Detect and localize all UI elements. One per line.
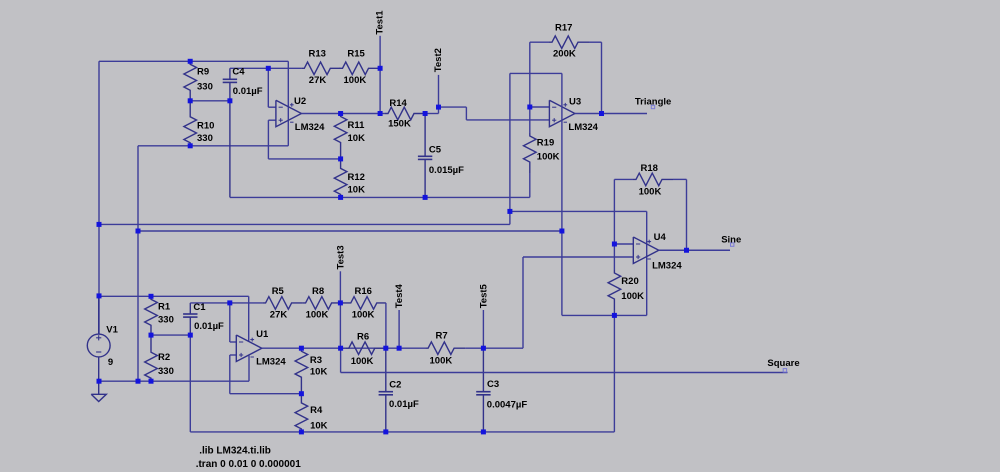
wire U4 power column xyxy=(646,211,648,315)
wire C4 top to U2 minus node xyxy=(230,67,268,69)
net Test4 column xyxy=(398,310,400,348)
svg-text:10K: 10K xyxy=(348,133,366,144)
wire C1 column to bottom bus xyxy=(189,335,191,432)
svg-text:R9: R9 xyxy=(197,67,209,78)
svg-text:R5: R5 xyxy=(272,286,285,297)
resistor R8 xyxy=(303,297,341,310)
wire U1 plus column xyxy=(230,354,237,356)
net Test3 column xyxy=(339,271,341,303)
svg-text:330: 330 xyxy=(197,82,213,93)
wire U4 plus input path xyxy=(523,256,633,258)
svg-text:100K: 100K xyxy=(344,75,367,86)
svg-text:0.01µF: 0.01µF xyxy=(233,86,263,97)
wire Test5 node feedback to U4 xyxy=(483,347,523,349)
wire Test2 node to U3 plus xyxy=(425,113,438,115)
svg-text:Test4: Test4 xyxy=(394,283,405,308)
resistor R4 xyxy=(295,394,308,432)
capacitor C5 xyxy=(424,114,426,157)
svg-text:Triangle: Triangle xyxy=(635,97,671,108)
wire U2 output row xyxy=(301,113,380,115)
wire R17 left column xyxy=(529,42,531,107)
svg-text:10K: 10K xyxy=(310,421,328,432)
svg-text:R15: R15 xyxy=(347,49,365,60)
wire V+ to U3 power xyxy=(510,72,562,74)
wire R1-R2 mid to C1 xyxy=(151,334,190,336)
capacitor C2 xyxy=(385,348,387,392)
svg-text:C1: C1 xyxy=(193,302,206,313)
svg-text:Test3: Test3 xyxy=(335,245,346,269)
svg-text:R3: R3 xyxy=(310,355,322,366)
bus middle node C4-R12-C5-R19 xyxy=(230,196,530,198)
svg-text:Test2: Test2 xyxy=(433,48,444,72)
wire ground column to bottom bus xyxy=(613,315,615,432)
svg-text:330: 330 xyxy=(158,315,174,326)
svg-text:R11: R11 xyxy=(348,120,366,131)
net Test2 column xyxy=(438,75,440,107)
svg-text:U4: U4 xyxy=(654,232,667,243)
svg-text:R8: R8 xyxy=(312,286,324,297)
wire U2 power column xyxy=(287,61,289,146)
svg-text:Test1: Test1 xyxy=(375,10,386,35)
resistor R13 xyxy=(301,62,340,75)
svg-text:0.015µF: 0.015µF xyxy=(429,165,464,176)
svg-text:LM324: LM324 xyxy=(256,357,286,368)
svg-text:9: 9 xyxy=(108,357,113,368)
svg-text:C5: C5 xyxy=(429,145,442,156)
resistor R5 xyxy=(263,297,303,310)
svg-text:.tran 0 0.01 0 0.000001: .tran 0 0.01 0 0.000001 xyxy=(196,459,302,470)
wire U3 output / Triangle xyxy=(575,113,647,115)
net flag Square xyxy=(783,369,786,372)
resistor R7 xyxy=(425,342,465,355)
svg-text:R16: R16 xyxy=(355,286,372,297)
svg-text:Sine: Sine xyxy=(721,235,741,246)
wire V+ top rail xyxy=(99,60,288,62)
wire C1 top row xyxy=(190,302,262,304)
svg-text:R17: R17 xyxy=(555,22,572,33)
wire U2 plus input path xyxy=(268,119,276,121)
wire ground link row xyxy=(562,314,647,316)
wire R17 right column xyxy=(601,42,603,113)
svg-text:10K: 10K xyxy=(310,367,328,378)
wire V1+ column xyxy=(98,61,100,334)
svg-text:27K: 27K xyxy=(309,75,327,86)
wire U1 V+ column xyxy=(248,296,250,341)
svg-text:Test5: Test5 xyxy=(479,283,490,308)
resistor R6 xyxy=(341,347,346,349)
svg-text:100K: 100K xyxy=(430,356,453,367)
bus ground V1- row xyxy=(99,380,249,382)
svg-text:330: 330 xyxy=(158,366,174,377)
node R9-R10 wire xyxy=(190,100,230,102)
resistor R19 xyxy=(529,107,531,133)
svg-text:150K: 150K xyxy=(388,119,411,130)
resistor R18 xyxy=(614,178,633,180)
resistor R10 xyxy=(184,101,197,146)
op-amp U2 xyxy=(276,100,302,127)
svg-text:0.01µF: 0.01µF xyxy=(389,399,419,410)
svg-text:R18: R18 xyxy=(641,163,658,174)
wire row to R13 xyxy=(268,67,301,69)
svg-text:C3: C3 xyxy=(487,379,499,390)
junction dots xyxy=(188,59,193,64)
svg-text:R19: R19 xyxy=(537,138,554,149)
wire U2 minus input column xyxy=(267,68,269,107)
svg-text:200K: 200K xyxy=(553,49,576,60)
capacitor C3 xyxy=(482,348,484,392)
wire R18 left column xyxy=(613,179,615,244)
svg-text:100K: 100K xyxy=(537,152,560,163)
svg-text:27K: 27K xyxy=(270,310,288,321)
svg-text:U2: U2 xyxy=(294,96,306,107)
svg-text:LM324: LM324 xyxy=(652,260,682,271)
svg-text:100K: 100K xyxy=(352,310,375,321)
svg-text:100K: 100K xyxy=(351,356,374,367)
svg-text:R20: R20 xyxy=(621,276,638,287)
svg-text:.lib LM324.ti.lib: .lib LM324.ti.lib xyxy=(199,445,271,456)
source V1 xyxy=(87,334,110,357)
resistor R20 xyxy=(613,244,615,270)
net Test1 column xyxy=(379,36,381,114)
svg-text:R1: R1 xyxy=(158,301,171,312)
svg-text:R4: R4 xyxy=(310,405,323,416)
wire ground column x=138 xyxy=(137,146,139,381)
wire U3 minus stub xyxy=(530,106,550,108)
svg-text:R6: R6 xyxy=(357,332,369,343)
wire U1 output row xyxy=(262,347,425,349)
svg-text:U1: U1 xyxy=(256,329,269,340)
resistor R14 xyxy=(380,113,385,115)
resistor R2 xyxy=(145,335,158,381)
wire U1 minus column xyxy=(229,303,231,342)
svg-text:R2: R2 xyxy=(158,352,170,363)
svg-text:V1: V1 xyxy=(106,325,118,336)
svg-text:10K: 10K xyxy=(348,184,366,195)
bus V+ distribution xyxy=(99,223,510,225)
svg-text:R13: R13 xyxy=(309,49,326,60)
svg-text:100K: 100K xyxy=(621,291,644,302)
svg-text:Square: Square xyxy=(767,358,799,369)
op-amp U4 xyxy=(633,237,659,264)
wire U2 V- return xyxy=(138,145,288,147)
resistor R12 xyxy=(334,159,347,198)
wire V+ rail right column xyxy=(509,73,511,224)
wire Square output xyxy=(340,348,342,372)
bus V+ branch to U4 xyxy=(510,210,647,212)
op-amp U1 xyxy=(236,335,261,362)
svg-text:R12: R12 xyxy=(348,172,365,183)
svg-text:C2: C2 xyxy=(389,379,401,390)
resistor R11 xyxy=(334,114,347,159)
capacitor C4 xyxy=(229,68,231,79)
resistor R9 xyxy=(184,61,197,101)
bus V+ lower xyxy=(99,295,249,297)
svg-text:LM324: LM324 xyxy=(568,122,598,133)
svg-text:R10: R10 xyxy=(197,121,214,132)
resistor R15 xyxy=(340,62,381,75)
svg-text:R7: R7 xyxy=(436,331,448,342)
net flag Sine xyxy=(731,243,734,246)
svg-text:U3: U3 xyxy=(569,97,581,108)
svg-text:330: 330 xyxy=(197,133,213,144)
bus ground distribution xyxy=(138,230,562,232)
resistor R3 xyxy=(295,348,308,394)
resistor R16 xyxy=(340,297,386,310)
capacitor C1 xyxy=(189,303,191,314)
svg-text:100K: 100K xyxy=(639,187,662,198)
wire R18 right column xyxy=(686,179,688,250)
svg-text:100K: 100K xyxy=(306,310,329,321)
svg-text:0.01µF: 0.01µF xyxy=(194,321,224,332)
net flag Triangle xyxy=(651,105,654,108)
ground symbol xyxy=(98,381,100,394)
wire U3 power column xyxy=(561,73,563,315)
wire R16 to C2 node xyxy=(385,303,387,348)
op-amp U3 xyxy=(549,100,575,127)
svg-text:C4: C4 xyxy=(232,67,245,78)
resistor R1 xyxy=(145,296,158,335)
wire U4 minus stub xyxy=(614,243,633,245)
wire U4 output / Sine xyxy=(659,249,730,251)
svg-text:LM324: LM324 xyxy=(295,122,325,133)
resistor R17 xyxy=(530,41,549,43)
bus bottom ground xyxy=(190,431,614,433)
svg-text:0.0047µF: 0.0047µF xyxy=(487,399,528,410)
net Test5 column xyxy=(482,310,484,348)
svg-text:R14: R14 xyxy=(389,98,407,109)
wire U1 V- column xyxy=(248,356,250,382)
